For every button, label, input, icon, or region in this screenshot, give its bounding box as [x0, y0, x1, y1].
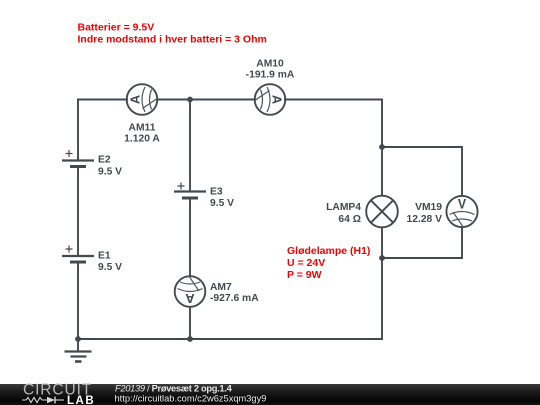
svg-text:F20139 / Prøvesæt 2 opg.1.4: F20139 / Prøvesæt 2 opg.1.4	[115, 383, 233, 393]
svg-text:V: V	[458, 196, 467, 212]
svg-text:Glødelampe (H1): Glødelampe (H1)	[287, 245, 370, 257]
wire left rail top to E2	[77, 100, 79, 161]
ammeter AM10	[246, 58, 295, 114]
battery E3	[174, 183, 234, 210]
svg-text:LAB: LAB	[67, 395, 95, 405]
svg-text:AM7: AM7	[210, 282, 232, 293]
node middle branch bottom	[187, 336, 193, 342]
node at AM11/E3 branch	[187, 97, 193, 103]
svg-text:9.5 V: 9.5 V	[98, 167, 122, 178]
wire VM19 branch bottom	[382, 228, 462, 259]
svg-text:A: A	[185, 291, 194, 306]
svg-text:A: A	[128, 95, 143, 104]
node top of lamp branch	[379, 144, 385, 150]
svg-text:-927.6 mA: -927.6 mA	[210, 293, 259, 304]
lamp LAMP4	[326, 196, 398, 228]
annotation battery values	[78, 22, 267, 46]
svg-text:1.120 A: 1.120 A	[124, 133, 160, 144]
svg-text:A: A	[269, 95, 284, 104]
annotation lamp values	[287, 245, 370, 281]
svg-text:P = 9W: P = 9W	[287, 269, 322, 281]
node ground	[75, 336, 81, 342]
ammeter AM7	[175, 276, 260, 307]
voltmeter VM19	[407, 196, 478, 228]
svg-text:Batterier = 9.5V: Batterier = 9.5V	[78, 22, 155, 34]
wire AM10 to top-right corner down	[285, 100, 382, 148]
svg-text:Indre modstand i hver batteri: Indre modstand i hver batteri = 3 Ohm	[78, 34, 267, 46]
svg-text:12.28 V: 12.28 V	[407, 214, 443, 225]
wire LAMP4 to node	[381, 228, 383, 259]
svg-text:E3: E3	[210, 187, 223, 198]
svg-text:http://circuitlab.com/c2w6z5xq: http://circuitlab.com/c2w6z5xqm3gy9	[115, 394, 267, 404]
footer bar	[0, 384, 540, 405]
svg-text:VM19: VM19	[415, 202, 442, 213]
battery E2	[62, 150, 122, 178]
wire E1 to ground node	[77, 262, 79, 339]
wire bottom run	[78, 258, 382, 339]
wire between AM11 and AM10	[157, 99, 255, 101]
wire top left	[78, 99, 127, 101]
ground	[65, 339, 92, 362]
wire E2 to E1	[77, 167, 79, 257]
svg-text:E2: E2	[98, 155, 111, 166]
svg-text:64 Ω: 64 Ω	[338, 214, 361, 225]
node bottom of lamp branch	[379, 255, 385, 261]
svg-text:-191.9 mA: -191.9 mA	[246, 69, 295, 80]
wire E3 to AM7	[189, 198, 191, 276]
logo squiggle resistor and diode	[22, 397, 64, 404]
svg-text:LAMP4: LAMP4	[326, 202, 361, 213]
svg-text:U = 24V: U = 24V	[287, 257, 325, 269]
svg-text:9.5 V: 9.5 V	[98, 262, 122, 273]
battery E1	[62, 246, 122, 273]
wire VM19 branch top	[382, 147, 462, 196]
wire AM7 to bottom	[189, 307, 191, 339]
svg-text:9.5 V: 9.5 V	[210, 198, 234, 209]
wire middle node to E3	[189, 100, 191, 192]
svg-text:E1: E1	[98, 250, 111, 261]
svg-text:AM10: AM10	[256, 58, 284, 69]
svg-text:AM11: AM11	[129, 122, 156, 133]
ammeter AM11	[124, 84, 160, 144]
wire node to LAMP4	[381, 147, 383, 196]
